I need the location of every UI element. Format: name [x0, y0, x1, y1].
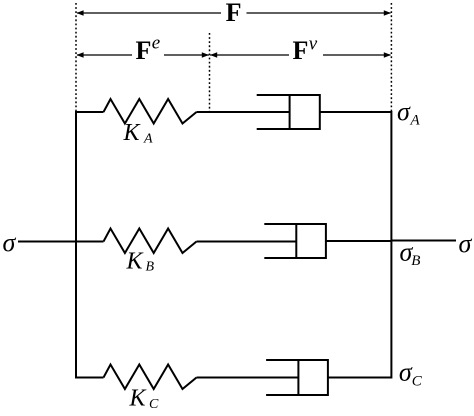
- left input lead wire (sigma): [18, 241, 76, 243]
- wire branch C left: [75, 377, 104, 379]
- label K_B: [126, 249, 155, 275]
- wire branch B right: [326, 240, 392, 242]
- dimension line F (total deformation): [76, 4, 391, 23]
- svg-text:σ: σ: [459, 229, 473, 258]
- svg-text:v: v: [309, 34, 318, 55]
- dimension line F^v (viscous part): [210, 49, 391, 61]
- svg-text:C: C: [412, 374, 423, 390]
- svg-text:e: e: [152, 33, 160, 54]
- label sigma_C: [399, 357, 423, 389]
- label K_C: [129, 386, 160, 412]
- svg-text:σ: σ: [3, 228, 17, 257]
- svg-text:C: C: [149, 397, 159, 411]
- label sigma_B: [400, 238, 421, 270]
- wire branch A middle (piston rod): [197, 111, 291, 113]
- svg-text:B: B: [411, 253, 420, 269]
- damper (dashpot) branch A: [257, 94, 320, 130]
- dotted extension line middle (x=209.5): [209, 33, 211, 113]
- spring K_A: [104, 99, 197, 124]
- wire branch C right: [328, 377, 392, 379]
- svg-text:A: A: [143, 132, 153, 147]
- label sigma_A: [397, 97, 421, 129]
- svg-text:F: F: [136, 36, 152, 65]
- svg-text:F: F: [226, 0, 242, 27]
- svg-text:σ: σ: [397, 97, 411, 126]
- label K_A: [123, 120, 154, 147]
- svg-text:F: F: [293, 36, 309, 65]
- dotted extension line right (x=391.4): [390, 3, 392, 112]
- dotted extension line left (x=76): [75, 3, 77, 112]
- damper (dashpot) branch C: [266, 359, 328, 396]
- svg-text:B: B: [146, 260, 155, 275]
- right bus wire (vertical): [390, 111, 392, 379]
- spring K_C: [104, 365, 197, 390]
- spring K_B: [104, 229, 197, 254]
- wire branch B left: [75, 241, 104, 243]
- right output lead wire (sigma): [391, 240, 456, 242]
- label F^v: [293, 34, 318, 66]
- wire branch C middle (piston rod): [197, 377, 299, 379]
- svg-text:A: A: [410, 113, 421, 129]
- damper (dashpot) branch B: [264, 223, 326, 259]
- wire branch B middle (piston rod): [197, 241, 297, 243]
- svg-text:K: K: [123, 120, 142, 146]
- left bus wire (vertical): [75, 111, 77, 379]
- wire branch A left: [75, 111, 104, 113]
- dimension line F^e (elastic part): [76, 49, 209, 61]
- label F^e: [136, 33, 161, 66]
- svg-text:K: K: [126, 249, 145, 275]
- wire branch A right: [320, 111, 392, 113]
- svg-text:K: K: [129, 386, 148, 412]
